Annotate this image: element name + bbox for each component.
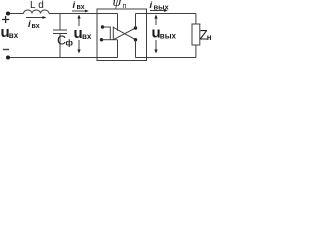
- svg-text:вых: вых: [154, 2, 170, 11]
- voltage arrow uвых: [155, 17, 157, 25]
- terminal dot A: [101, 25, 104, 28]
- lead H3: [102, 39, 118, 41]
- inverter box: [97, 9, 147, 61]
- svg-text:L: L: [30, 0, 36, 11]
- terminal dot C: [134, 26, 137, 29]
- inductor Ld: [24, 10, 50, 14]
- wire top-mid: [49, 13, 118, 15]
- output wire top: [136, 13, 196, 15]
- contact bar 1: [109, 27, 111, 41]
- svg-text:вх: вх: [82, 32, 92, 41]
- svg-text:вых: вых: [160, 31, 177, 40]
- lead H2: [103, 26, 111, 28]
- svg-text:d: d: [38, 0, 44, 11]
- inner lead V1 from top wire: [117, 14, 119, 31]
- svg-text:н: н: [207, 33, 211, 42]
- terminal minus dot: [6, 56, 10, 60]
- capacitor Cф plates: [53, 29, 67, 31]
- current arrow iвых: [150, 10, 164, 12]
- diagonal D1: [113, 27, 135, 39]
- output wire bottom: [136, 57, 196, 59]
- capacitor bottom lead: [59, 34, 61, 58]
- contact bar 2: [112, 27, 114, 41]
- minus sign: [3, 49, 9, 51]
- current arrow iвх (under inductor): [26, 17, 43, 19]
- svg-text:i: i: [150, 0, 153, 11]
- diagonal D2: [113, 28, 135, 40]
- inner lead V3 to bottom wire: [117, 40, 119, 58]
- wire top-left: [10, 13, 24, 15]
- inner lead V5: [135, 40, 137, 58]
- svg-text:ф: ф: [66, 37, 74, 47]
- capacitor branch top lead: [59, 14, 61, 31]
- plus sign: [2, 16, 9, 23]
- wire load top: [195, 14, 197, 25]
- load Zн box: [192, 24, 200, 45]
- current arrow iп (bridge input, top): [72, 10, 85, 12]
- bottom rail: [10, 57, 118, 59]
- svg-text:вх: вх: [9, 31, 19, 40]
- svg-text:вх: вх: [32, 23, 40, 30]
- svg-text:п: п: [123, 3, 127, 10]
- terminal dot D: [134, 38, 137, 41]
- svg-text:вх: вх: [77, 4, 85, 11]
- wire load bottom: [195, 45, 197, 58]
- svg-text:ψ: ψ: [113, 0, 122, 9]
- inner lead V4: [135, 14, 137, 29]
- voltage arrow uвх (bridge input): [78, 17, 80, 26]
- terminal dot B: [100, 38, 103, 41]
- svg-text:i: i: [73, 0, 76, 11]
- terminal plus dot: [6, 12, 10, 16]
